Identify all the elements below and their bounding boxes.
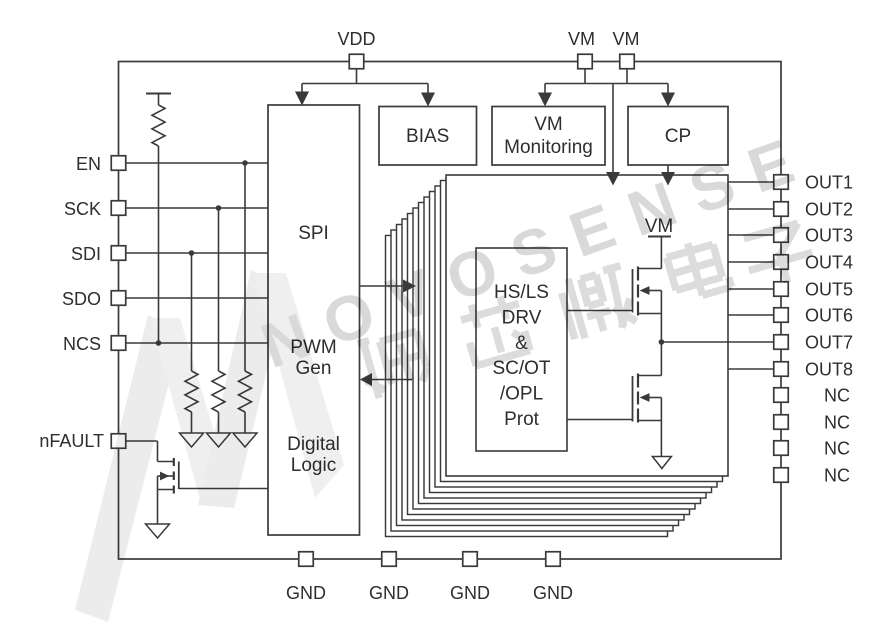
arrow into SPI top xyxy=(295,92,309,106)
pin nFAULT xyxy=(111,434,126,449)
wire OUT2 xyxy=(728,208,774,210)
wire Q3 source to ground xyxy=(660,398,662,457)
block U1 SPI / PWM Gen / Digital Logic xyxy=(268,105,360,535)
pin GND4 xyxy=(546,552,561,567)
block BIAS xyxy=(379,107,477,166)
wire NCS xyxy=(126,342,268,344)
arrow output stage to PWM Gen xyxy=(371,379,412,381)
svg-text:NC: NC xyxy=(824,466,850,486)
svg-text:VM: VM xyxy=(534,114,563,135)
svg-text:GND: GND xyxy=(286,583,326,603)
node VDD wire xyxy=(356,69,358,84)
pin OUT7 xyxy=(774,335,789,350)
svg-text:VM: VM xyxy=(613,29,640,49)
pin NC xyxy=(774,388,789,403)
block output stage stack (8 half-bridges) xyxy=(386,236,668,537)
watermark xyxy=(75,120,821,622)
arrow CP into output stage xyxy=(661,172,675,186)
svg-text:OUT5: OUT5 xyxy=(805,280,853,300)
svg-text:Prot: Prot xyxy=(504,409,540,430)
wire Q1 gate to Digital Logic xyxy=(179,488,268,490)
wire R1 to NCS, junction dot xyxy=(158,146,160,343)
pin OUT2 xyxy=(774,202,789,217)
pin EN xyxy=(111,156,126,171)
pin SDI xyxy=(111,246,126,261)
wire SCK pulldown, junction dot xyxy=(218,208,220,371)
ground below Q1 xyxy=(146,524,170,538)
pin SDO xyxy=(111,291,126,306)
pin VDD xyxy=(349,54,364,69)
wire SDO xyxy=(126,297,268,299)
node VM wire xyxy=(584,69,586,84)
transistor Q3 low-side xyxy=(633,374,662,423)
svg-text:OUT8: OUT8 xyxy=(805,360,853,380)
svg-text:NC: NC xyxy=(824,413,850,433)
svg-text:OUT2: OUT2 xyxy=(805,200,853,220)
wire OUT7 xyxy=(661,341,773,343)
wire OUT3 xyxy=(728,234,774,236)
block CP xyxy=(628,107,728,166)
wire CP to output stage xyxy=(667,165,669,173)
transistor Q2 high-side xyxy=(633,267,662,316)
resistor R1 pull-up (rail bar) xyxy=(146,93,171,95)
pin SCK xyxy=(111,201,126,216)
wire SDI pulldown, junction dot xyxy=(191,253,193,371)
wire EN xyxy=(126,162,268,164)
arrow into BIAS top xyxy=(421,93,435,107)
arrow VM into output stage xyxy=(606,172,620,186)
wire VM to output stage xyxy=(612,84,614,174)
resistor R4 pull-down xyxy=(239,371,252,412)
svg-text:NC: NC xyxy=(824,439,850,459)
resistor R2 pull-down xyxy=(185,371,198,412)
svg-text:OUT3: OUT3 xyxy=(805,226,853,246)
wire nFAULT xyxy=(126,440,158,442)
transistor Q1 nFAULT open-drain xyxy=(158,458,179,524)
pin GND3 xyxy=(463,552,478,567)
pin NC xyxy=(774,415,789,430)
ground below Q3 xyxy=(652,457,671,469)
pin NC xyxy=(774,468,789,483)
svg-text:Monitoring: Monitoring xyxy=(504,137,593,158)
node OUT junction dot xyxy=(659,339,665,345)
svg-text:GND: GND xyxy=(533,583,573,603)
wire EN pulldown, junction dot xyxy=(244,163,246,371)
wire OUT6 xyxy=(728,314,774,316)
svg-text:VM: VM xyxy=(568,29,595,49)
wire SCK xyxy=(126,207,268,209)
wire OUT8 xyxy=(728,368,774,370)
svg-text:NCS: NCS xyxy=(63,334,101,354)
svg-text:EN: EN xyxy=(76,154,101,174)
wire Q3 drain to OUT node xyxy=(660,342,662,376)
pin VM 2 xyxy=(620,54,635,69)
block VM Monitoring xyxy=(492,107,605,166)
svg-text:OUT7: OUT7 xyxy=(805,333,853,353)
pin OUT5 xyxy=(774,282,789,297)
pin OUT4 xyxy=(774,255,789,270)
svg-text:SPI: SPI xyxy=(298,223,329,244)
pin GND1 xyxy=(299,552,314,567)
pin NC xyxy=(774,441,789,456)
svg-text:/OPL: /OPL xyxy=(500,384,543,405)
pin OUT3 xyxy=(774,228,789,243)
svg-text:GND: GND xyxy=(369,583,409,603)
svg-text:CP: CP xyxy=(665,126,691,147)
wire OUT1 xyxy=(728,181,774,183)
svg-text:SDI: SDI xyxy=(71,244,101,264)
pin OUT8 xyxy=(774,362,789,377)
arrow into VM Monitoring top xyxy=(538,93,552,107)
chip boundary xyxy=(119,62,782,560)
svg-text:NC: NC xyxy=(824,386,850,406)
svg-text:OUT6: OUT6 xyxy=(805,306,853,326)
ground xyxy=(180,433,204,447)
svg-text:SCK: SCK xyxy=(64,199,101,219)
pin OUT6 xyxy=(774,308,789,323)
resistor R3 pull-down xyxy=(212,371,225,412)
wire OUT5 xyxy=(728,288,774,290)
wire LS gate xyxy=(567,419,633,421)
wire Q2 source to OUT node xyxy=(660,291,662,343)
ground xyxy=(207,433,231,447)
wire HS gate xyxy=(567,310,633,312)
wire SDI xyxy=(126,252,268,254)
arrow SPI to output stage xyxy=(360,285,405,287)
wire OUT4 xyxy=(728,261,774,263)
block output stage front xyxy=(446,175,728,476)
pin GND2 xyxy=(382,552,397,567)
svg-text:SDO: SDO xyxy=(62,289,101,309)
svg-text:BIAS: BIAS xyxy=(406,126,449,147)
pin VM xyxy=(578,54,593,69)
arrow into CP top xyxy=(661,93,675,107)
svg-text:nFAULT: nFAULT xyxy=(39,431,104,451)
pin OUT1 xyxy=(774,175,789,190)
block HS/LS DRV and SC/OT/OPL Prot xyxy=(476,248,567,451)
pin NCS xyxy=(111,336,126,351)
svg-text:GND: GND xyxy=(450,583,490,603)
ground xyxy=(233,433,257,447)
svg-text:VDD: VDD xyxy=(337,29,375,49)
